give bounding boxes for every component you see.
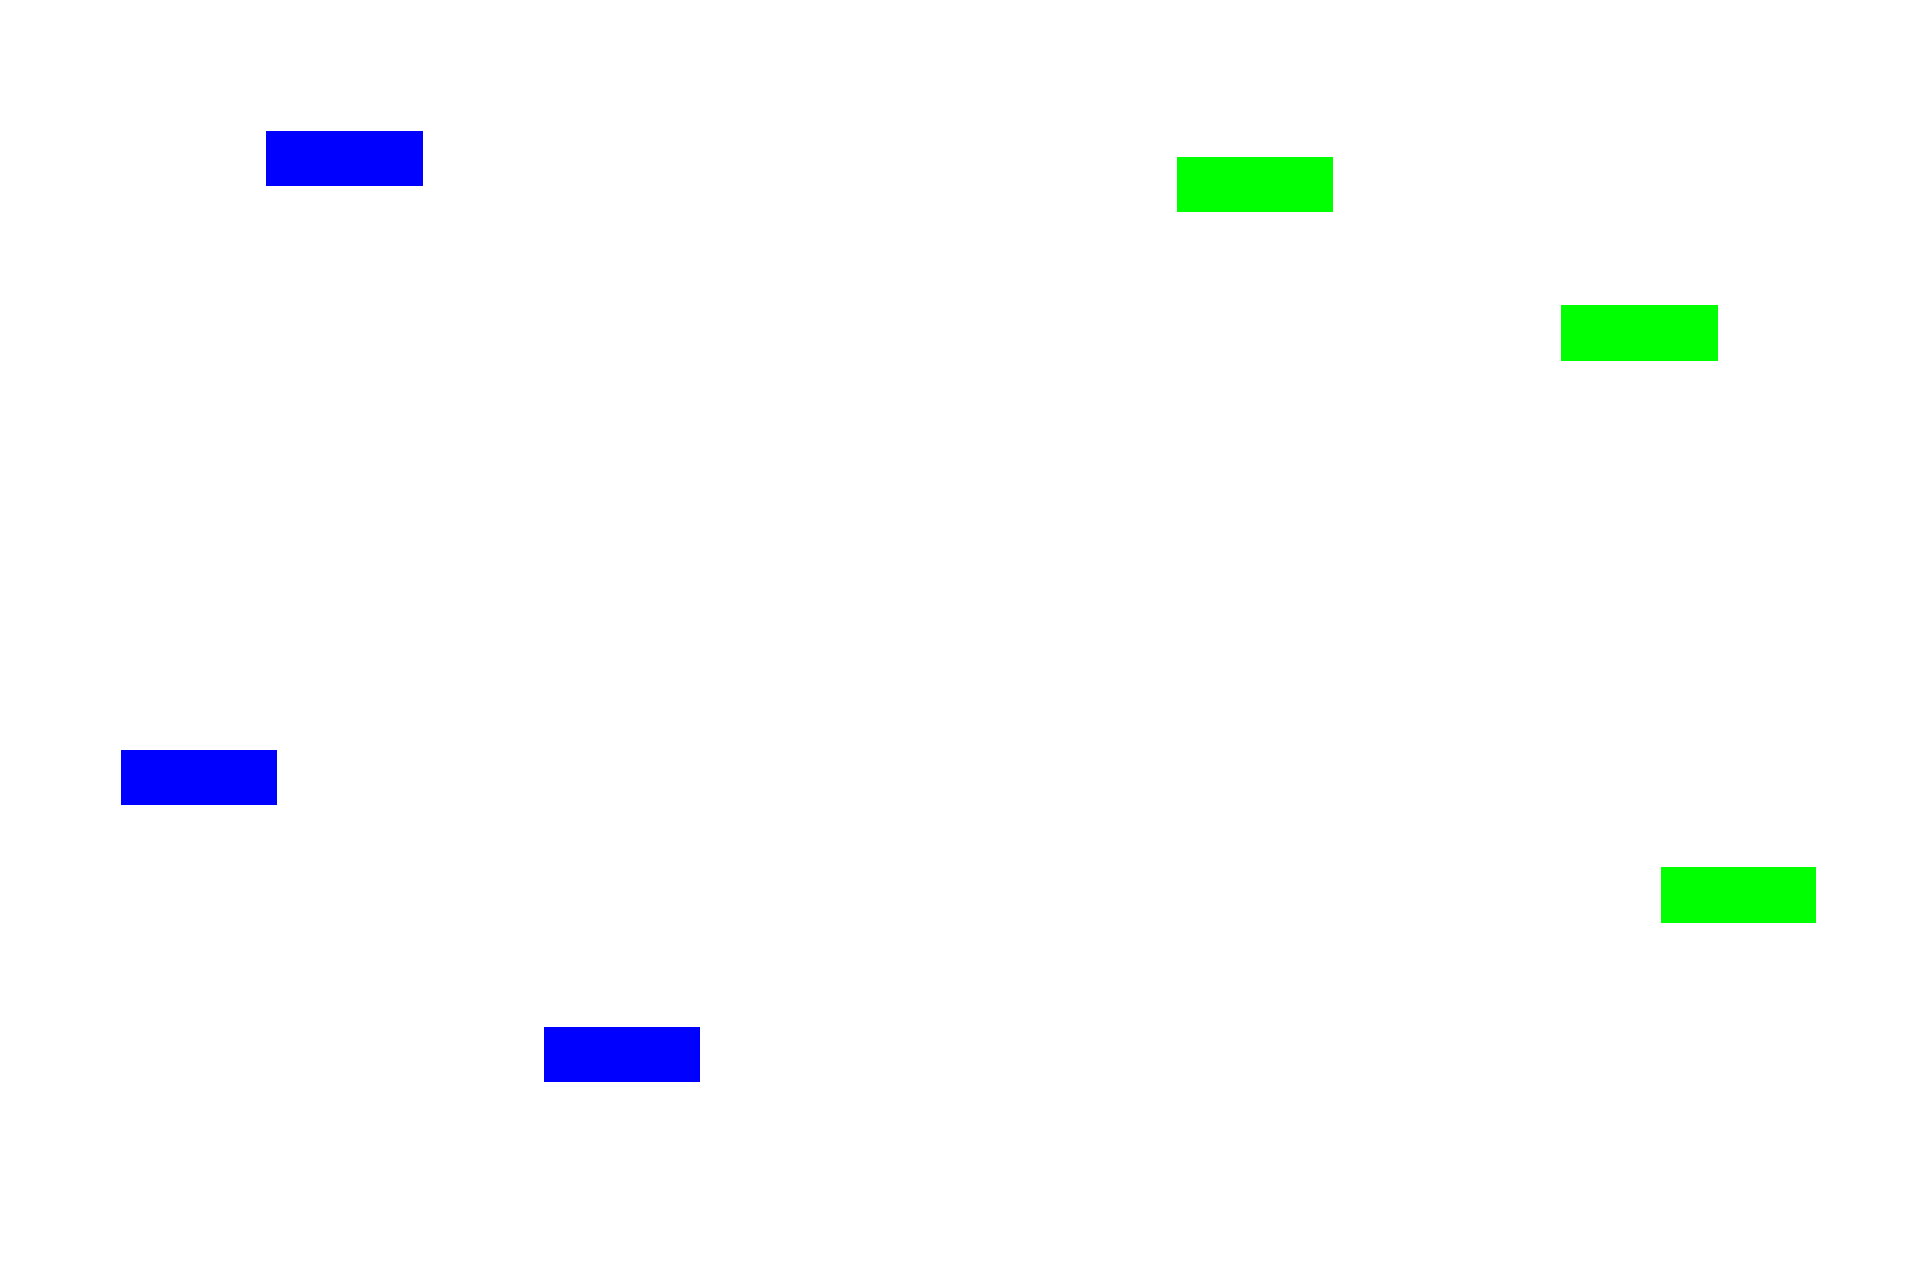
green rectangle 3 (upper right) <box>1561 305 1718 361</box>
blue rectangle 6 (lower middle-left) <box>544 1027 700 1082</box>
blue rectangle 1 (top-left area) <box>266 131 423 186</box>
green rectangle 5 (lower right) <box>1661 867 1816 923</box>
blue rectangle 4 (middle left) <box>121 750 277 805</box>
green rectangle 2 (upper middle-right) <box>1177 157 1333 212</box>
